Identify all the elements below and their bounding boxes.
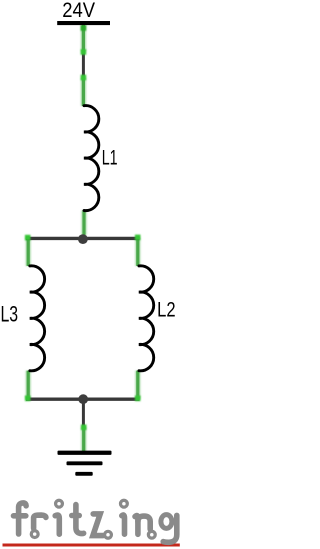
svg-text:L3: L3 [1, 303, 19, 327]
svg-text:L2: L2 [157, 299, 175, 322]
svg-text:24V: 24V [62, 0, 95, 22]
svg-text:L1: L1 [102, 146, 118, 169]
